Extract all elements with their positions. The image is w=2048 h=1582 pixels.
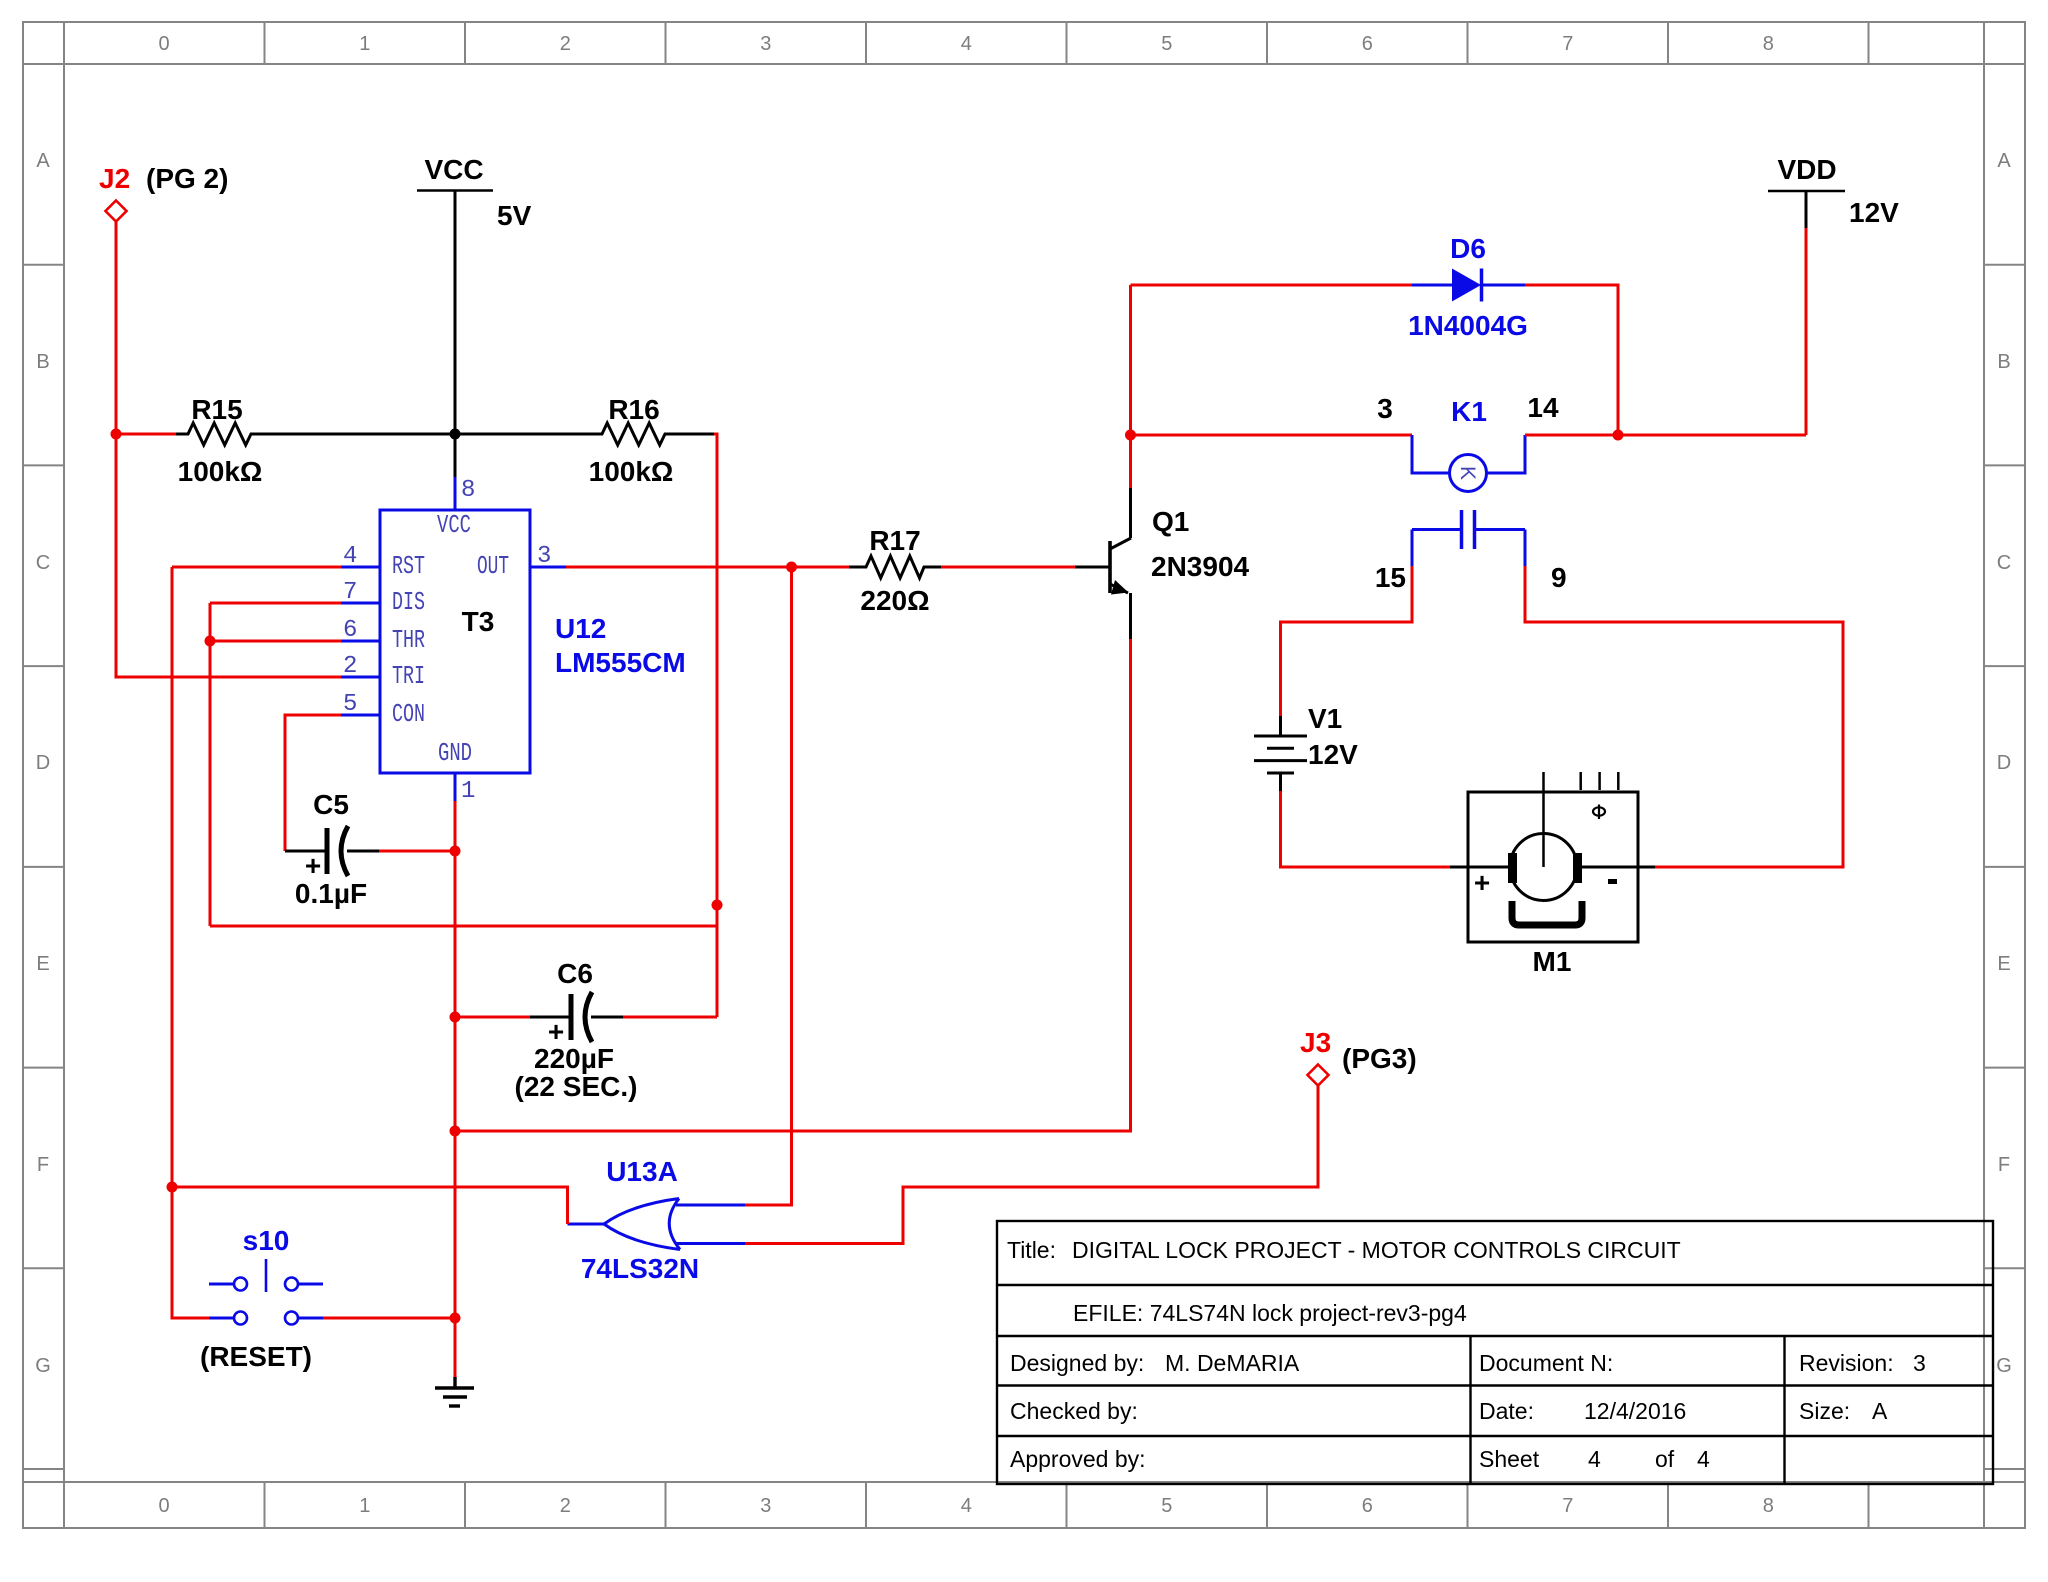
svg-text:7: 7 (343, 579, 357, 606)
svg-text:C6: C6 (557, 958, 593, 989)
svg-text:4: 4 (1697, 1446, 1710, 1472)
resistor R17 220 (849, 525, 941, 616)
svg-text:R16: R16 (608, 394, 659, 425)
junction J2/R15 (111, 429, 122, 440)
wire VDD drop (1805, 228, 1808, 435)
junction R16 vertical / DIS-THR wire (712, 900, 723, 911)
svg-text:4: 4 (961, 1495, 972, 1517)
svg-text:VDD: VDD (1777, 154, 1836, 185)
svg-text:A: A (36, 150, 50, 172)
svg-text:G: G (1996, 1355, 2012, 1377)
junction VCC/R15/R16 (450, 429, 461, 440)
svg-text:C: C (36, 552, 50, 574)
wire RST net (172, 567, 341, 1318)
connector J2 (PG 2) (99, 163, 228, 222)
svg-text:B: B (36, 351, 49, 373)
svg-text:3: 3 (760, 1495, 771, 1517)
svg-text:14: 14 (1527, 392, 1559, 423)
OR gate U13A 74LS32N (568, 1156, 746, 1284)
title block (997, 1221, 1993, 1484)
svg-text:2N3904: 2N3904 (1151, 551, 1250, 582)
motor M1 (1450, 772, 1655, 977)
svg-text:OUT: OUT (477, 551, 509, 581)
svg-text:DIS: DIS (392, 587, 425, 617)
junction collector/K1 coil row (1125, 430, 1136, 441)
transistor Q1 2N3904 (1075, 488, 1250, 639)
svg-text:G: G (35, 1355, 51, 1377)
svg-text:74LS32N: 74LS32N (581, 1253, 699, 1284)
wire VCC rail to U12 pin 8 (454, 191, 457, 478)
svg-text:4: 4 (1588, 1446, 1601, 1472)
svg-text:LM555CM: LM555CM (555, 647, 686, 678)
svg-text:U13A: U13A (606, 1156, 678, 1187)
U12 pin 3 OUT stub (530, 543, 566, 570)
U12 pin 5 stub (341, 691, 380, 718)
svg-text:1: 1 (461, 778, 475, 805)
svg-text:E: E (36, 953, 49, 975)
wire J2 to TRI pin and R15 (116, 222, 341, 678)
svg-text:7: 7 (1562, 1495, 1573, 1517)
svg-text:12V: 12V (1849, 197, 1899, 228)
svg-text:8: 8 (1763, 1495, 1774, 1517)
svg-text:K: K (1456, 466, 1479, 480)
relay contact K1 pins 15-9 (1375, 510, 1567, 593)
diode D6 1N4004G (1408, 233, 1528, 341)
svg-text:6: 6 (1362, 1495, 1373, 1517)
wire OUT net (566, 567, 849, 1205)
svg-text:Approved by:: Approved by: (1010, 1446, 1146, 1472)
svg-text:Checked by:: Checked by: (1010, 1398, 1138, 1424)
svg-text:U12: U12 (555, 613, 606, 644)
svg-text:(22 SEC.): (22 SEC.) (515, 1071, 638, 1102)
svg-text:Size:: Size: (1799, 1398, 1850, 1424)
wire D6 cathode to VDD node (1525, 285, 1618, 435)
svg-text:D6: D6 (1450, 233, 1486, 264)
U12 pin 4 stub (341, 543, 380, 570)
junction RST / OR-gate output (167, 1182, 178, 1193)
wire R17 to Q1 base (941, 566, 1075, 569)
wire emitter to GND rail (455, 639, 1131, 1131)
svg-text:4: 4 (961, 33, 972, 55)
U12 pin 1 GND stub (455, 773, 475, 805)
wire coil row left (1131, 434, 1413, 437)
svg-text:3: 3 (537, 543, 551, 570)
svg-text:0.1µF: 0.1µF (295, 878, 367, 909)
svg-text:15: 15 (1375, 562, 1406, 593)
svg-text:VCC: VCC (437, 510, 471, 540)
svg-text:E: E (1997, 953, 2010, 975)
svg-text:F: F (1998, 1154, 2010, 1176)
svg-text:J2: J2 (99, 163, 130, 194)
timer U12 T3 LM555CM (380, 510, 686, 773)
resistor R15 100k (176, 394, 455, 487)
svg-text:7: 7 (1562, 33, 1573, 55)
svg-text:R17: R17 (869, 525, 920, 556)
wire J3 to OR gate input B (745, 1086, 1318, 1244)
junction D6/K1/VDD (1613, 430, 1624, 441)
svg-text:Revision:: Revision: (1799, 1350, 1894, 1376)
svg-text:THR: THR (392, 625, 425, 655)
svg-text:+: + (1474, 867, 1490, 898)
ground (435, 1377, 474, 1406)
svg-text:8: 8 (1763, 33, 1774, 55)
svg-text:3: 3 (1913, 1350, 1926, 1376)
U12 pin 2 stub (341, 653, 380, 680)
svg-text:J3: J3 (1300, 1027, 1331, 1058)
svg-text:Document N:: Document N: (1479, 1350, 1613, 1376)
svg-text:2: 2 (560, 33, 571, 55)
battery V1 12V (1254, 703, 1358, 791)
wire OR gate output to RST net (172, 1187, 568, 1224)
svg-text:Date:: Date: (1479, 1398, 1534, 1424)
power symbol VCC 5V (417, 154, 532, 231)
wire coil to VDD (1525, 434, 1618, 437)
wire VDD node (1618, 434, 1806, 437)
svg-text:VCC: VCC (424, 154, 483, 185)
svg-text:s10: s10 (243, 1225, 290, 1256)
svg-text:EFILE: 74LS74N lock project-re: EFILE: 74LS74N lock project-rev3-pg4 (1073, 1300, 1467, 1326)
wire s10 to GND rail (323, 1317, 455, 1320)
connector J3 (PG3) (1300, 1027, 1417, 1086)
svg-text:6: 6 (1362, 33, 1373, 55)
junction C6/GND rail (450, 1012, 461, 1023)
wire contact 9 to motor (1525, 566, 1843, 867)
svg-text:5: 5 (343, 691, 357, 718)
wire battery to motor (1281, 791, 1451, 867)
svg-text:C: C (1997, 552, 2011, 574)
svg-text:5: 5 (1161, 33, 1172, 55)
svg-text:5: 5 (1161, 1495, 1172, 1517)
svg-text:100kΩ: 100kΩ (589, 456, 674, 487)
wire GND rail (454, 801, 457, 1377)
U12 pin 8 stub (455, 477, 475, 510)
svg-text:DIGITAL LOCK PROJECT - MOTOR C: DIGITAL LOCK PROJECT - MOTOR CONTROLS CI… (1072, 1237, 1681, 1263)
U12 pin 7 stub (341, 579, 380, 606)
svg-text:1N4004G: 1N4004G (1408, 310, 1528, 341)
svg-text:V1: V1 (1308, 703, 1342, 734)
switch s10 (RESET) (200, 1225, 323, 1372)
junction OUT/R17/OR-input (786, 562, 797, 573)
wire DIS/THR net (210, 603, 717, 926)
svg-text:12/4/2016: 12/4/2016 (1584, 1398, 1686, 1424)
svg-text:K1: K1 (1451, 396, 1487, 427)
svg-text:M1: M1 (1533, 946, 1572, 977)
svg-text:2: 2 (560, 1495, 571, 1517)
svg-text:3: 3 (760, 33, 771, 55)
svg-text:3: 3 (1377, 393, 1393, 424)
svg-text:6: 6 (343, 617, 357, 644)
svg-text:D: D (1997, 752, 2011, 774)
wire CON to C5 (285, 715, 341, 851)
junction C5/GND rail (450, 846, 461, 857)
wire J2 node to R15 (116, 433, 176, 436)
svg-text:Sheet: Sheet (1479, 1446, 1540, 1472)
svg-text:C5: C5 (313, 789, 349, 820)
svg-text:Q1: Q1 (1152, 506, 1189, 537)
svg-text:CON: CON (392, 699, 425, 729)
svg-text:R15: R15 (191, 394, 242, 425)
relay coil K1 (1377, 392, 1559, 492)
svg-text:220Ω: 220Ω (860, 585, 929, 616)
svg-text:T3: T3 (462, 606, 495, 637)
svg-text:0: 0 (158, 33, 169, 55)
wire C6 right (623, 1016, 717, 1019)
svg-text:D: D (36, 752, 50, 774)
svg-text:TRI: TRI (392, 661, 425, 691)
svg-text:(RESET): (RESET) (200, 1341, 312, 1372)
svg-text:4: 4 (343, 543, 357, 570)
svg-text:A: A (1872, 1398, 1888, 1424)
svg-text:(PG 2): (PG 2) (146, 163, 228, 194)
svg-text:+: + (305, 850, 321, 881)
junction DIS/THR (205, 636, 216, 647)
wire collector net (1129, 285, 1132, 488)
svg-text:1: 1 (359, 1495, 370, 1517)
svg-text:GND: GND (438, 738, 472, 768)
U12 pin 6 stub (341, 617, 380, 644)
wire C5 to GND rail (379, 850, 455, 853)
svg-text:5V: 5V (497, 200, 532, 231)
svg-text:9: 9 (1551, 562, 1567, 593)
svg-text:B: B (1997, 351, 2010, 373)
svg-text:100kΩ: 100kΩ (178, 456, 263, 487)
wire contact 15 to battery (1281, 566, 1413, 716)
svg-text:220µF: 220µF (534, 1043, 614, 1074)
svg-text:1: 1 (359, 33, 370, 55)
wire C6 left (455, 1016, 530, 1019)
svg-text:A: A (1997, 150, 2011, 172)
svg-text:of: of (1655, 1446, 1675, 1472)
svg-text:Designed by:: Designed by: (1010, 1350, 1144, 1376)
svg-text:RST: RST (392, 551, 425, 581)
svg-text:2: 2 (343, 653, 357, 680)
junction s10/GND rail (450, 1313, 461, 1324)
svg-text:M. DeMARIA: M. DeMARIA (1165, 1350, 1300, 1376)
svg-text:12V: 12V (1308, 739, 1358, 770)
wire R16 to C6/THR node (714, 434, 717, 1017)
power symbol VDD 12V (1768, 154, 1899, 228)
junction emitter-line/GND rail (450, 1126, 461, 1137)
capacitor C6 220uF (515, 958, 638, 1102)
svg-text:(PG3): (PG3) (1342, 1043, 1417, 1074)
svg-text:F: F (37, 1154, 49, 1176)
svg-text:0: 0 (158, 1495, 169, 1517)
wire D6 anode from collector (1131, 284, 1413, 287)
resistor R16 100k (455, 394, 714, 487)
svg-text:Title:: Title: (1007, 1237, 1056, 1263)
capacitor C5 0.1uF (285, 789, 379, 909)
svg-text:8: 8 (461, 477, 475, 504)
